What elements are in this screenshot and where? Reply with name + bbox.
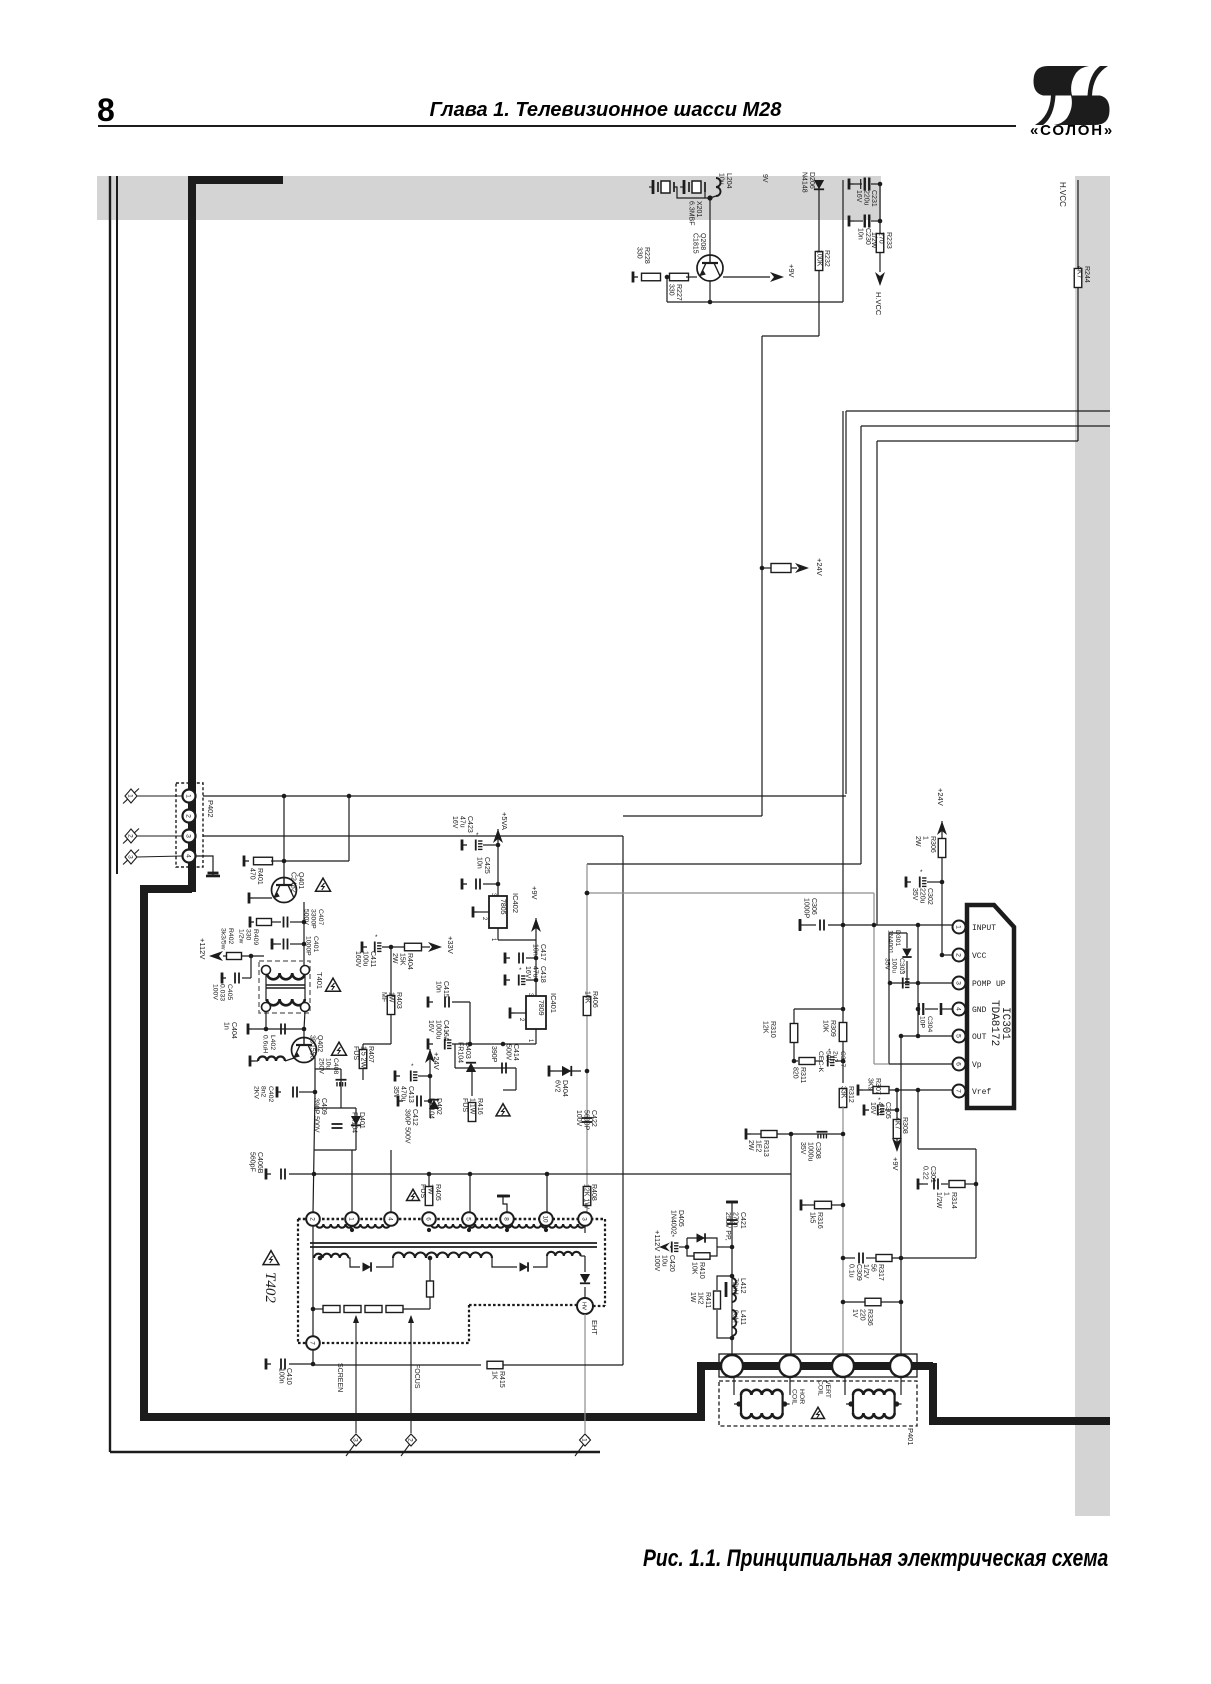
svg-text:C40810u250V: C40810u250V bbox=[317, 1058, 339, 1074]
svg-text:P401: P401 bbox=[906, 1428, 915, 1446]
svg-text:R232100K: R232100K bbox=[815, 250, 830, 267]
svg-text:FOCUS: FOCUS bbox=[413, 1364, 420, 1389]
svg-text:C23010n: C23010n bbox=[856, 228, 871, 245]
svg-text:TDA8172: TDA8172 bbox=[988, 1000, 1000, 1046]
svg-text:GND: GND bbox=[972, 1006, 987, 1015]
svg-text:IC402: IC402 bbox=[511, 893, 520, 913]
svg-text:C411100u160V: C411100u160V bbox=[354, 951, 376, 968]
svg-text:1: 1 bbox=[581, 1438, 588, 1442]
svg-text:*: * bbox=[920, 869, 923, 876]
svg-text:C412390P 500V: C412390P 500V bbox=[403, 1109, 418, 1144]
svg-text:*: * bbox=[411, 1063, 414, 1070]
svg-text:H.VCC: H.VCC bbox=[874, 292, 883, 316]
svg-text:C3010.22: C3010.22 bbox=[921, 1166, 936, 1183]
svg-text:C42347u16V: C42347u16V bbox=[451, 816, 473, 833]
svg-text:C414500V: C414500V bbox=[504, 1044, 519, 1061]
svg-text:+9V: +9V bbox=[530, 886, 539, 900]
svg-text:3: 3 bbox=[352, 1438, 359, 1442]
svg-text:C4073300P500V: C4073300P500V bbox=[302, 909, 324, 929]
svg-text:2: 2 bbox=[518, 1018, 524, 1022]
svg-text:C42010u100V: C42010u100V bbox=[653, 1255, 675, 1272]
svg-text:VERTCOIL: VERTCOIL bbox=[817, 1380, 831, 1398]
svg-text:C4225600P100V: C4225600P100V bbox=[575, 1110, 597, 1131]
svg-text:L4110uH: L4110uH bbox=[731, 1310, 746, 1325]
svg-text:5: 5 bbox=[465, 1217, 472, 1221]
svg-text:R401470: R401470 bbox=[248, 868, 263, 885]
svg-text:C4011000P: C4011000P bbox=[305, 936, 319, 956]
svg-text:Vp: Vp bbox=[972, 1061, 982, 1070]
svg-text:X2016.3MBF: X2016.3MBF bbox=[687, 201, 702, 226]
svg-text:1: 1 bbox=[348, 1217, 355, 1221]
svg-text:+24V: +24V bbox=[432, 1052, 441, 1070]
svg-text:9V: 9V bbox=[761, 174, 768, 183]
svg-text:+9V: +9V bbox=[891, 1157, 900, 1171]
svg-text:3: 3 bbox=[955, 981, 962, 985]
svg-text:L41272uH: L41272uH bbox=[731, 1278, 746, 1295]
svg-text:IC401: IC401 bbox=[549, 993, 558, 1013]
svg-text:2: 2 bbox=[127, 834, 134, 838]
svg-text:C42510n: C42510n bbox=[475, 857, 490, 874]
svg-text:R227330: R227330 bbox=[667, 284, 682, 301]
svg-text:1: 1 bbox=[490, 938, 496, 942]
svg-text:4: 4 bbox=[387, 1217, 394, 1221]
svg-text:Q4023D1555: Q4023D1555 bbox=[308, 1035, 323, 1060]
svg-text:C410100n: C410100n bbox=[277, 1368, 292, 1385]
svg-text:R3362201V: R3362201V bbox=[851, 1309, 873, 1326]
svg-text:C303100u35V: C303100u35V bbox=[883, 958, 905, 974]
svg-text:10: 10 bbox=[542, 1215, 549, 1223]
svg-text:R4161 1WFUS: R4161 1WFUS bbox=[461, 1098, 483, 1115]
svg-text:Vref: Vref bbox=[972, 1088, 991, 1097]
svg-text:1: 1 bbox=[127, 794, 134, 798]
svg-text:HV: HV bbox=[581, 1302, 587, 1310]
svg-text:R31012K: R31012K bbox=[761, 1021, 776, 1038]
svg-text:OUT: OUT bbox=[972, 1033, 987, 1042]
svg-text:8: 8 bbox=[503, 1217, 510, 1221]
svg-text:C3090.1u: C3090.1u bbox=[847, 1264, 862, 1281]
svg-text:HORCOIL: HORCOIL bbox=[791, 1389, 805, 1405]
svg-text:R4023k3/5w: R4023k3/5w bbox=[220, 928, 234, 950]
svg-text:T401: T401 bbox=[315, 972, 324, 989]
svg-text:7: 7 bbox=[309, 1341, 316, 1345]
svg-text:R4093301/2w: R4093301/2w bbox=[237, 929, 259, 945]
svg-text:+112V: +112V bbox=[198, 938, 207, 959]
svg-text:+9V: +9V bbox=[787, 264, 796, 278]
svg-text:C4050.033100V: C4050.033100V bbox=[211, 984, 233, 1001]
svg-text:R31411/2W: R31411/2W bbox=[935, 1192, 957, 1209]
svg-text:5: 5 bbox=[955, 1034, 962, 1038]
svg-text:3: 3 bbox=[581, 1217, 588, 1221]
svg-text:Q401C2482: Q401C2482 bbox=[289, 872, 304, 893]
svg-text:C4028n22KV: C4028n22KV bbox=[252, 1086, 274, 1102]
svg-text:7809: 7809 bbox=[537, 1000, 544, 1016]
svg-text:R311820: R311820 bbox=[791, 1067, 806, 1083]
svg-text:2: 2 bbox=[185, 814, 192, 818]
svg-text:3: 3 bbox=[127, 855, 134, 859]
svg-text:R3131E22W: R3131E22W bbox=[747, 1140, 769, 1157]
svg-text:C416A1000u16V: C416A1000u16V bbox=[427, 1020, 449, 1042]
svg-text:R40415K2W: R40415K2W bbox=[391, 953, 413, 970]
svg-text:2: 2 bbox=[955, 953, 962, 957]
svg-text:D4051N4002: D4051N4002 bbox=[669, 1210, 684, 1235]
svg-text:R228330: R228330 bbox=[635, 247, 650, 264]
svg-text:R41010K: R41010K bbox=[690, 1262, 705, 1279]
svg-text:R4111K21W: R4111K21W bbox=[689, 1292, 711, 1308]
svg-text:2: 2 bbox=[309, 1217, 316, 1221]
svg-text:R317561/2V: R317561/2V bbox=[862, 1264, 884, 1281]
svg-text:4: 4 bbox=[955, 1007, 962, 1011]
svg-text:R4151K: R4151K bbox=[490, 1371, 505, 1388]
svg-text:+5VA: +5VA bbox=[500, 812, 509, 830]
svg-text:C30410P: C30410P bbox=[919, 1016, 933, 1032]
svg-text:H.VCC: H.VCC bbox=[1058, 182, 1067, 207]
svg-text:+24V: +24V bbox=[936, 788, 945, 806]
svg-text:POMP UP: POMP UP bbox=[972, 980, 1006, 989]
svg-text:Q208C1815: Q208C1815 bbox=[691, 233, 706, 254]
svg-text:EHT: EHT bbox=[590, 1320, 599, 1335]
svg-text:6: 6 bbox=[425, 1217, 432, 1221]
svg-text:C3061000P: C3061000P bbox=[802, 898, 817, 919]
svg-text:2: 2 bbox=[481, 917, 487, 921]
svg-text:1: 1 bbox=[527, 1039, 533, 1043]
svg-text:*: * bbox=[672, 1234, 675, 1241]
svg-text:SCREEN: SCREEN bbox=[336, 1363, 343, 1392]
svg-text:7805: 7805 bbox=[499, 899, 506, 915]
svg-text:6: 6 bbox=[955, 1062, 962, 1066]
svg-text:VCC: VCC bbox=[972, 952, 987, 961]
svg-text:R3161k5: R3161k5 bbox=[808, 1212, 823, 1229]
svg-text:D401FR104: D401FR104 bbox=[350, 1112, 365, 1133]
svg-text:C421270n250V PP,: C421270n250V PP, bbox=[724, 1212, 746, 1241]
svg-text:T402: T402 bbox=[262, 1272, 278, 1303]
svg-text:D403FR104: D403FR104 bbox=[456, 1042, 471, 1063]
svg-text:+24V: +24V bbox=[815, 558, 824, 576]
svg-text:C406B560pF: C406B560pF bbox=[248, 1152, 263, 1174]
svg-text:3: 3 bbox=[185, 834, 192, 838]
svg-text:7: 7 bbox=[955, 1089, 962, 1093]
svg-text:INPUT: INPUT bbox=[972, 924, 996, 933]
svg-text:C302220u35V: C302220u35V bbox=[911, 888, 933, 905]
svg-text:390P: 390P bbox=[490, 1046, 497, 1063]
svg-text:*: * bbox=[519, 967, 522, 974]
svg-text:C413470u35V: C413470u35V bbox=[392, 1086, 414, 1103]
svg-text:D4046V2: D4046V2 bbox=[553, 1080, 568, 1097]
svg-text:+112V: +112V bbox=[653, 1230, 662, 1251]
svg-text:2: 2 bbox=[407, 1438, 414, 1442]
svg-text:C3081000u35V: C3081000u35V bbox=[799, 1142, 821, 1162]
svg-text:P402: P402 bbox=[206, 800, 215, 818]
svg-text:4: 4 bbox=[185, 854, 192, 858]
svg-text:C41510n: C41510n bbox=[434, 981, 449, 998]
svg-text:C409390P 500V: C409390P 500V bbox=[312, 1098, 327, 1133]
svg-text:L4020.6uH: L4020.6uH bbox=[262, 1035, 276, 1053]
svg-text:R40812K 1W: R40812K 1W bbox=[582, 1184, 597, 1209]
svg-text:R30612W: R30612W bbox=[914, 836, 936, 853]
svg-text:+33V: +33V bbox=[446, 936, 455, 954]
svg-text:C4041n: C4041n bbox=[222, 1022, 237, 1039]
svg-text:1: 1 bbox=[185, 794, 192, 798]
svg-text:R30910K: R30910K bbox=[821, 1020, 836, 1037]
svg-text:*: * bbox=[375, 934, 378, 941]
svg-text:1: 1 bbox=[955, 925, 962, 929]
svg-text:R4071.5 2WFUS: R4071.5 2WFUS bbox=[352, 1046, 374, 1069]
